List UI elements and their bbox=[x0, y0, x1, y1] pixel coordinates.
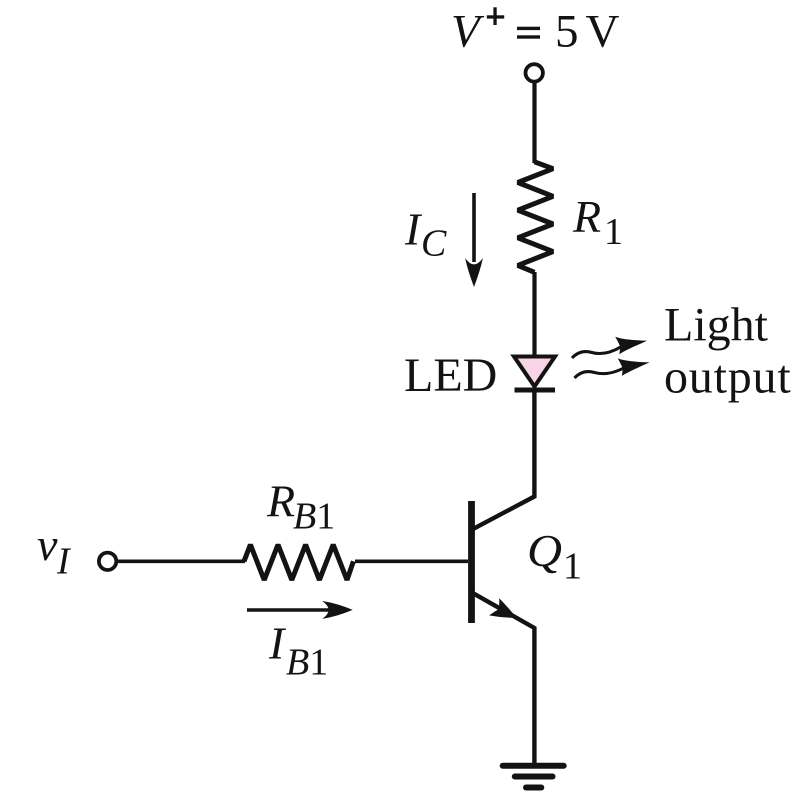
svg-text:R: R bbox=[266, 476, 295, 527]
svg-text:5: 5 bbox=[555, 5, 579, 57]
svg-text:output: output bbox=[664, 351, 791, 404]
svg-text:R: R bbox=[572, 191, 601, 242]
svg-text:C: C bbox=[421, 223, 447, 265]
svg-text:Q: Q bbox=[527, 525, 562, 576]
svg-text:I: I bbox=[268, 618, 287, 669]
svg-text:I: I bbox=[56, 541, 72, 583]
svg-text:1: 1 bbox=[563, 546, 582, 588]
svg-text:Light: Light bbox=[664, 299, 769, 352]
svg-text:V: V bbox=[586, 5, 620, 57]
svg-text:1: 1 bbox=[604, 211, 623, 253]
svg-text:LED: LED bbox=[404, 349, 497, 402]
svg-text:v: v bbox=[37, 519, 58, 570]
svg-text:B1: B1 bbox=[286, 642, 328, 684]
svg-text:B1: B1 bbox=[293, 496, 335, 538]
